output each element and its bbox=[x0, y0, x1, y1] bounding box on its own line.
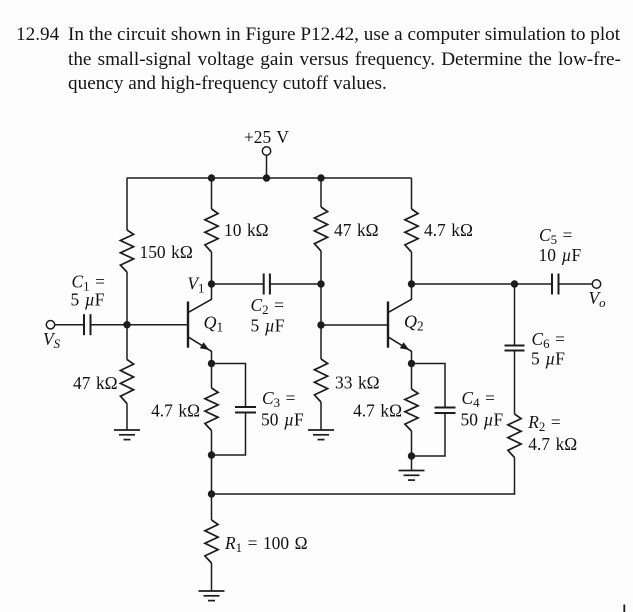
resistor R2 = 4.7 kOhm bbox=[508, 414, 521, 458]
svg-text:4.7 kΩ: 4.7 kΩ bbox=[353, 401, 402, 421]
svg-text:R2 =: R2 = bbox=[527, 412, 560, 434]
node: Q2 collector node bbox=[408, 280, 415, 287]
capacitor C3 = 50 uF bbox=[235, 406, 256, 408]
capacitor C6 = 5 uF bbox=[505, 345, 525, 347]
svg-text:C2 =: C2 = bbox=[251, 295, 284, 317]
node: rail junction at 10k branch bbox=[208, 174, 215, 181]
wire: C4 branch bottom bbox=[412, 413, 446, 456]
resistor 4.7 kOhm (collector Q2) bbox=[405, 209, 418, 252]
wire: Vs to C1 bbox=[55, 324, 84, 326]
node: C4 bottom junction bbox=[408, 452, 415, 459]
resistor 4.7 kOhm (emitter Q1) bbox=[205, 388, 218, 431]
wire: rail down to 47k top bbox=[320, 178, 322, 207]
node: Q2 emitter node bbox=[408, 360, 415, 367]
svg-text:10 µF: 10 µF bbox=[539, 245, 582, 265]
capacitor C1 = 5 uF bbox=[83, 314, 85, 335]
svg-text:33 kΩ: 33 kΩ bbox=[335, 373, 380, 393]
wire: output node down to C6 bbox=[514, 284, 516, 346]
svg-text:150 kΩ: 150 kΩ bbox=[140, 242, 193, 262]
svg-text:VS: VS bbox=[43, 329, 61, 351]
svg-text:Vo: Vo bbox=[589, 288, 607, 310]
wire: base node down to 47k top bbox=[126, 325, 128, 360]
wire: down to R1 node bbox=[211, 455, 213, 494]
svg-text:C3 =: C3 = bbox=[262, 388, 295, 410]
node: output node bbox=[511, 280, 518, 287]
wire: emitter node down to 4.7k bbox=[411, 364, 413, 390]
wire: 4.7k bottom to C4 bottom node bbox=[411, 431, 413, 456]
capacitor C5 = 10 uF bbox=[551, 274, 553, 295]
svg-text:5 µF: 5 µF bbox=[251, 315, 285, 335]
ground (R1) bbox=[199, 590, 225, 592]
svg-text:47 kΩ: 47 kΩ bbox=[73, 373, 118, 393]
node: +25V junction on rail bbox=[263, 174, 270, 181]
node: rail junction at 47k branch bbox=[317, 174, 324, 181]
svg-text:V1: V1 bbox=[187, 273, 204, 295]
svg-text:47 kΩ: 47 kΩ bbox=[334, 220, 379, 240]
resistor 47 kOhm (lower left) bbox=[120, 360, 133, 404]
wire: C6 to R2 bbox=[514, 351, 516, 415]
node: R1 top node bbox=[208, 490, 215, 497]
svg-text:4.7 kΩ: 4.7 kΩ bbox=[151, 400, 200, 420]
node: C3 bottom junction bbox=[208, 451, 215, 458]
svg-text:50 µF: 50 µF bbox=[261, 410, 304, 430]
wire: V1 to C2 bbox=[212, 283, 264, 285]
svg-text:R1 = 100 Ω: R1 = 100 Ω bbox=[224, 533, 308, 555]
node: Q1 emitter node bbox=[208, 360, 215, 367]
node: Q2 base node bbox=[317, 321, 324, 328]
capacitor C2 = 5 uF bbox=[263, 274, 265, 295]
wire: rail down to 10k top bbox=[211, 178, 213, 209]
wire: rail down to 4.7k top bbox=[411, 178, 413, 209]
transistor Q2 bbox=[387, 302, 389, 348]
wire: 47k bottom through C2 node to base node bbox=[320, 251, 322, 325]
wire: C2 to Q2 bias node bbox=[270, 283, 321, 285]
node V1 bbox=[208, 280, 215, 287]
wire: emitter node down to 4.7k bbox=[211, 364, 213, 389]
svg-text:5 µF: 5 µF bbox=[71, 290, 105, 310]
wire: R1 bottom to ground bbox=[211, 563, 213, 591]
wire: 10k bottom to node V1 bbox=[211, 252, 213, 284]
svg-text:4.7 kΩ: 4.7 kΩ bbox=[424, 220, 473, 240]
svg-text:5 µF: 5 µF bbox=[531, 349, 565, 369]
wire: C1 to base node bbox=[91, 324, 128, 326]
wire: R1 node to R1 bbox=[211, 494, 213, 520]
resistor 150 kOhm bbox=[120, 230, 133, 272]
resistor 10 kOhm bbox=[205, 209, 218, 252]
wire: C3 branch bottom bbox=[212, 413, 246, 456]
output terminal Vo circle bbox=[592, 280, 600, 288]
svg-text:50 µF: 50 µF bbox=[461, 410, 504, 430]
svg-text:C5 =: C5 = bbox=[539, 225, 572, 247]
node: Q1 base bias node bbox=[123, 321, 130, 328]
wire: base node to Q1 base bbox=[127, 324, 187, 326]
wire: top supply rail bbox=[127, 177, 412, 179]
resistor 33 kOhm bbox=[314, 359, 327, 402]
svg-text:Q1: Q1 bbox=[204, 312, 224, 334]
ground (33k) bbox=[308, 429, 334, 431]
wire: 150k bottom to base node bbox=[126, 272, 128, 325]
wire: 33k bottom to ground bbox=[320, 402, 322, 430]
wire: +25V stem bbox=[266, 155, 268, 178]
wire: down to ground bbox=[411, 456, 413, 471]
wire: 4.7k bottom to Q2 collector node bbox=[411, 252, 413, 284]
source terminal Vs circle bbox=[46, 321, 54, 329]
svg-text:4.7 kΩ: 4.7 kΩ bbox=[528, 434, 577, 454]
wire: R2 bottom to bottom rail corner bbox=[514, 458, 516, 495]
svg-text:10 kΩ: 10 kΩ bbox=[224, 220, 269, 240]
wire: C3 branch top bbox=[212, 364, 246, 408]
stray scan mark bottom right bbox=[623, 605, 625, 612]
node: C2 output on bias divider bbox=[317, 280, 324, 287]
wire: 4.7k bottom to C3 bottom node bbox=[211, 431, 213, 456]
transistor Q1 bbox=[187, 302, 189, 348]
wire: bottom rail bbox=[212, 493, 516, 495]
wire: C5 to Vo terminal bbox=[559, 283, 593, 285]
wire: Q2 base wire bbox=[321, 324, 387, 326]
wire: 47k bottom to ground bbox=[126, 404, 128, 431]
resistor 4.7 kOhm (emitter Q2) bbox=[405, 389, 418, 431]
capacitor C4 = 50 uF bbox=[435, 407, 456, 409]
wire: C4 branch top bbox=[412, 364, 446, 408]
svg-text:Q2: Q2 bbox=[404, 312, 424, 334]
wire: output node to C5 bbox=[515, 283, 553, 285]
svg-text:+25 V: +25 V bbox=[244, 127, 289, 147]
resistor 47 kOhm (upper) bbox=[314, 207, 327, 251]
svg-text:C4 =: C4 = bbox=[462, 388, 495, 410]
ground (Q2 emitter) bbox=[399, 470, 425, 472]
resistor R1 = 100 Ohm bbox=[205, 520, 218, 563]
wire: Q2 collector to output node bbox=[412, 283, 515, 285]
power terminal circle bbox=[262, 147, 270, 155]
ground (left 47k) bbox=[114, 429, 140, 431]
wire: base node down to 33k bbox=[320, 325, 322, 359]
wire: rail down to 150k top bbox=[126, 178, 128, 230]
